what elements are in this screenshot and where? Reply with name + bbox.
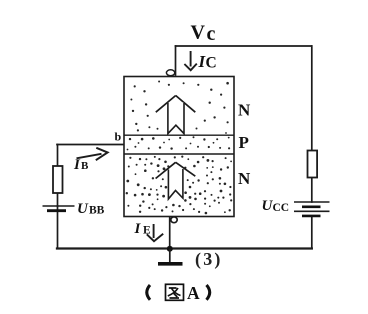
svg-text:N: N [238, 169, 251, 188]
doping dots: bottom N region [126, 156, 233, 215]
transistor body outline [124, 77, 234, 217]
ground stem [169, 249, 171, 262]
svg-text:I: I [134, 221, 142, 237]
svg-text:C: C [206, 55, 217, 72]
junction line: P/N boundary [124, 153, 234, 155]
arrow for IE current (downward) [147, 224, 163, 241]
svg-text:A: A [187, 283, 200, 303]
svg-text:B: B [81, 160, 89, 172]
battery UBB short thick plate [47, 209, 66, 212]
battery UCC plate 2 short thick [302, 206, 321, 209]
battery UCC plate 4 short thick [302, 215, 321, 218]
resistor RB (left) [53, 166, 63, 193]
wire: left branch resistor RB to battery UBB [57, 193, 59, 206]
svg-text:CC: CC [273, 202, 290, 214]
svg-text:b: b [115, 130, 122, 144]
wire: collector riser down to transistor body [175, 46, 177, 75]
junction line: N/P boundary [124, 134, 234, 136]
wire: bottom rail horizontal [57, 247, 312, 249]
junction node at emitter/bottom rail [167, 246, 173, 252]
arrow for IC current (downward) [184, 51, 196, 70]
caption right paren [207, 285, 210, 300]
carrier-flow arrow in bottom N region [156, 162, 196, 199]
wire: emitter lead vertical from body to bottom rail [169, 217, 171, 249]
wire: top horizontal from collector riser to right branch [176, 45, 312, 47]
doping dots: middle P region [127, 136, 231, 150]
battery UBB long plate [43, 205, 75, 207]
wire: right branch vertical down to resistor RC [311, 46, 313, 151]
caption left paren [147, 285, 150, 300]
wire: left branch battery UBB to bottom rail [57, 206, 59, 249]
doping dots: top N region [130, 81, 229, 134]
svg-text:P: P [239, 133, 249, 152]
svg-text:U: U [77, 201, 89, 217]
svg-text:I: I [73, 157, 81, 173]
arrow for IB current (rightward) [77, 154, 102, 159]
carrier-flow arrow in top N region [156, 96, 196, 134]
wire: base lead horizontal from body to left branch [57, 144, 124, 146]
svg-text:(3): (3) [195, 249, 223, 270]
svg-text:c: c [207, 23, 216, 45]
ground bar [158, 262, 183, 266]
terminal c (collector contact circle) [166, 70, 174, 76]
wire: right branch battery UCC to bottom rail [311, 217, 313, 249]
battery UCC plate 1 long [294, 201, 330, 203]
caption character tu (figure) as drawn glyph [166, 284, 184, 300]
svg-text:V: V [191, 22, 206, 44]
terminal e (emitter contact circle) [171, 217, 177, 223]
battery UCC plate 3 long [294, 210, 330, 212]
svg-text:BB: BB [89, 205, 105, 217]
svg-text:N: N [238, 101, 251, 120]
wire: left branch vertical down to resistor RB [57, 145, 59, 167]
resistor RC (right) [308, 151, 318, 178]
wire: right branch resistor RC to battery UCC [311, 178, 313, 203]
